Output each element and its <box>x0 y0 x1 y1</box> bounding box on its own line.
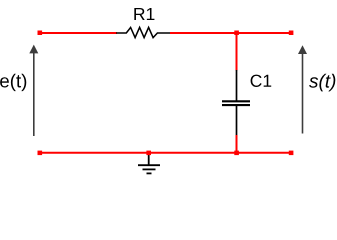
wire capacitor branch upper (node B down to C1) <box>236 33 238 71</box>
node B (top, capacitor junction) <box>234 31 239 36</box>
capacitor C1 <box>222 70 250 136</box>
label e(t) <box>0 74 26 91</box>
node A (top-left) <box>38 31 43 36</box>
label s(t) <box>309 74 335 92</box>
arrow e(t) input voltage <box>29 45 38 136</box>
arrow s(t) output voltage <box>298 45 307 133</box>
wire top-right (resistor R1 to node C) <box>170 32 291 34</box>
node D (bottom-left) <box>38 151 43 156</box>
ground <box>138 153 160 174</box>
node C (top-right) <box>289 31 294 36</box>
wire top-left (node A to resistor R1 left lead) <box>40 32 117 34</box>
wire capacitor branch lower (C1 down to node F) <box>236 135 238 153</box>
label C1 <box>251 75 272 87</box>
node G (bottom-right) <box>289 151 294 156</box>
label R1 <box>134 8 154 20</box>
node E (bottom, ground junction) <box>146 151 151 156</box>
wire bottom (node D to node G) <box>40 152 291 154</box>
node F (bottom, capacitor junction) <box>234 151 239 156</box>
resistor R1 <box>116 27 170 37</box>
